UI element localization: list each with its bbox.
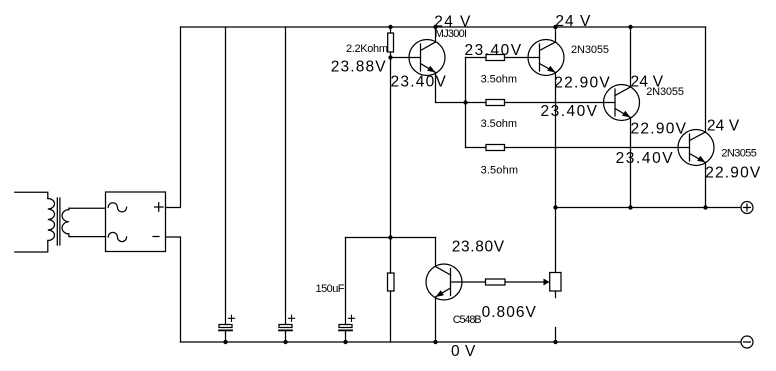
svg-text:22.90V: 22.90V xyxy=(554,75,610,92)
wire secondary top lead to bridge xyxy=(69,208,106,209)
node dot B base of Q1 xyxy=(388,55,392,59)
svg-text:23.80V: 23.80V xyxy=(452,238,505,255)
node dot plus rail at Q3 xyxy=(628,205,632,209)
transformer T1 primary lead bottom xyxy=(15,241,48,253)
node dot top rail at R1 xyxy=(388,25,392,29)
wire Q4 emitter to plus rail xyxy=(705,163,707,208)
svg-text:23.40V: 23.40V xyxy=(541,103,598,120)
wire Q3 collector to top rail xyxy=(630,27,632,87)
wire Q2 collector to top rail xyxy=(555,27,557,42)
capacitor C1 wire top xyxy=(225,27,227,325)
terminal minus output xyxy=(741,336,753,348)
wire bridge plus output to top rail xyxy=(166,27,181,208)
bridge rectifier AC symbol bottom xyxy=(108,232,126,241)
svg-text:2N3055: 2N3055 xyxy=(721,147,757,159)
node dot bottom rail at C1 xyxy=(223,340,227,344)
svg-text:22.90V: 22.90V xyxy=(705,164,761,181)
node dot bottom rail at Q5 emitter xyxy=(433,340,437,344)
wire potentiometer to bottom rail xyxy=(555,328,557,343)
potentiometer wiper arrow xyxy=(544,279,550,286)
wire bottom rail 0V xyxy=(181,341,742,343)
resistor R5 xyxy=(388,273,395,291)
wire node E to resistor R4 xyxy=(466,147,487,149)
bridge rectifier B1 body xyxy=(106,192,166,252)
bridge rectifier AC symbol top xyxy=(108,203,126,212)
capacitor C3 wire top xyxy=(345,238,347,325)
wire Q5 base to R6 xyxy=(451,281,486,283)
node dot plus rail at Q4 xyxy=(703,205,707,209)
svg-text:0.806V: 0.806V xyxy=(482,304,537,321)
wire Q3 emitter to plus rail xyxy=(630,118,632,208)
wire R6 to potentiometer wiper xyxy=(505,281,544,283)
svg-text:24 V: 24 V xyxy=(707,117,740,134)
wire R5 to bottom rail xyxy=(390,291,392,342)
wire node D horizontal xyxy=(346,237,436,239)
svg-text:22.90V: 22.90V xyxy=(631,121,687,138)
wire C548B collector xyxy=(435,238,437,267)
svg-text:23.40V: 23.40V xyxy=(616,150,674,167)
wire secondary bottom lead to bridge xyxy=(69,234,106,237)
capacitor C1 xyxy=(219,315,235,330)
svg-text:23.40V: 23.40V xyxy=(391,73,447,90)
wire R2 to Q2 base xyxy=(505,57,540,59)
bridge rectifier plus mark xyxy=(155,203,164,211)
resistor R6 xyxy=(486,279,506,285)
node dot bottom rail at potentiometer xyxy=(553,340,557,344)
terminal plus output xyxy=(741,202,753,214)
transistor Q4 2N3055 xyxy=(678,130,714,166)
wire Q4 collector to top rail xyxy=(705,27,707,132)
svg-text:23.88V: 23.88V xyxy=(331,58,386,75)
node dot bottom rail at C2 xyxy=(283,340,287,344)
wire node to resistor R2 xyxy=(466,57,487,59)
transformer T1 core xyxy=(57,198,60,245)
node dot D xyxy=(388,235,392,239)
wire node B to Q1 base xyxy=(391,57,421,59)
resistor R1 2.2Kohm xyxy=(388,33,394,52)
svg-text:2N3055: 2N3055 xyxy=(571,44,609,56)
svg-text:3.5ohm: 3.5ohm xyxy=(481,74,517,86)
wire node E to resistor R3 xyxy=(466,102,487,104)
wire R4 to Q4 base xyxy=(505,147,690,149)
node dot top rail at Q3 collector xyxy=(628,25,632,29)
wire Q5 emitter to bottom rail xyxy=(435,298,437,343)
transistor Q3 2N3055 xyxy=(604,85,640,121)
node dot plus rail at Q2 xyxy=(553,205,557,209)
wire potentiometer bottom stub xyxy=(555,291,557,298)
node dot top rail at Q2 collector xyxy=(553,25,557,29)
transformer T1 secondary winding xyxy=(62,210,69,234)
wire plus output rail xyxy=(556,207,742,209)
svg-text:24 V: 24 V xyxy=(555,13,591,30)
transistor Q5 C548B xyxy=(426,264,462,300)
capacitor C2 wire bottom xyxy=(285,332,287,343)
svg-text:23.40V: 23.40V xyxy=(465,42,522,59)
node dot top rail at Q1 collector xyxy=(433,25,437,29)
svg-text:C548B: C548B xyxy=(453,314,482,326)
capacitor C3 wire bottom xyxy=(345,332,347,343)
wire top rail 24V xyxy=(181,26,706,28)
wire R3 to Q3 base xyxy=(505,102,616,104)
svg-text:3.5ohm: 3.5ohm xyxy=(481,164,518,176)
wire bridge minus output to bottom rail xyxy=(166,237,181,342)
wire Q2 emitter to plus rail and potentiometer xyxy=(555,73,557,273)
wire R1 to node B down to node D xyxy=(390,52,392,273)
bridge rectifier minus mark xyxy=(153,236,159,238)
svg-text:MJ300I: MJ300I xyxy=(435,28,467,40)
transistor Q2 2N3055 xyxy=(528,40,564,76)
transformer T1 primary lead top xyxy=(15,192,48,198)
wire Q1 emitter down and right to node E xyxy=(436,73,466,103)
wire Q1 collector to top rail xyxy=(435,27,437,42)
resistor R2 3.5ohm xyxy=(486,55,505,61)
capacitor C2 wire top xyxy=(285,27,287,325)
capacitor C1 wire bottom xyxy=(225,332,227,343)
svg-text:3.5ohm: 3.5ohm xyxy=(481,118,517,130)
resistor R3 3.5ohm xyxy=(486,100,505,106)
capacitor C3 150uF xyxy=(339,315,355,330)
potentiometer P1 body xyxy=(550,273,561,292)
svg-text:0 V: 0 V xyxy=(451,343,476,360)
node dot bottom rail at C3 xyxy=(343,340,347,344)
wire top rail to R1 xyxy=(390,27,392,33)
svg-text:150uF: 150uF xyxy=(316,283,345,295)
svg-text:2N3055: 2N3055 xyxy=(646,86,684,98)
transformer T1 primary winding xyxy=(48,199,55,241)
transistor Q1 MJ300I xyxy=(409,40,445,76)
svg-text:2.2Kohm: 2.2Kohm xyxy=(346,43,388,55)
wire node E vertical xyxy=(465,58,467,148)
capacitor C2 xyxy=(279,315,295,330)
node dot E emitter of Q1 xyxy=(463,100,467,104)
resistor R4 3.5ohm xyxy=(486,145,505,151)
